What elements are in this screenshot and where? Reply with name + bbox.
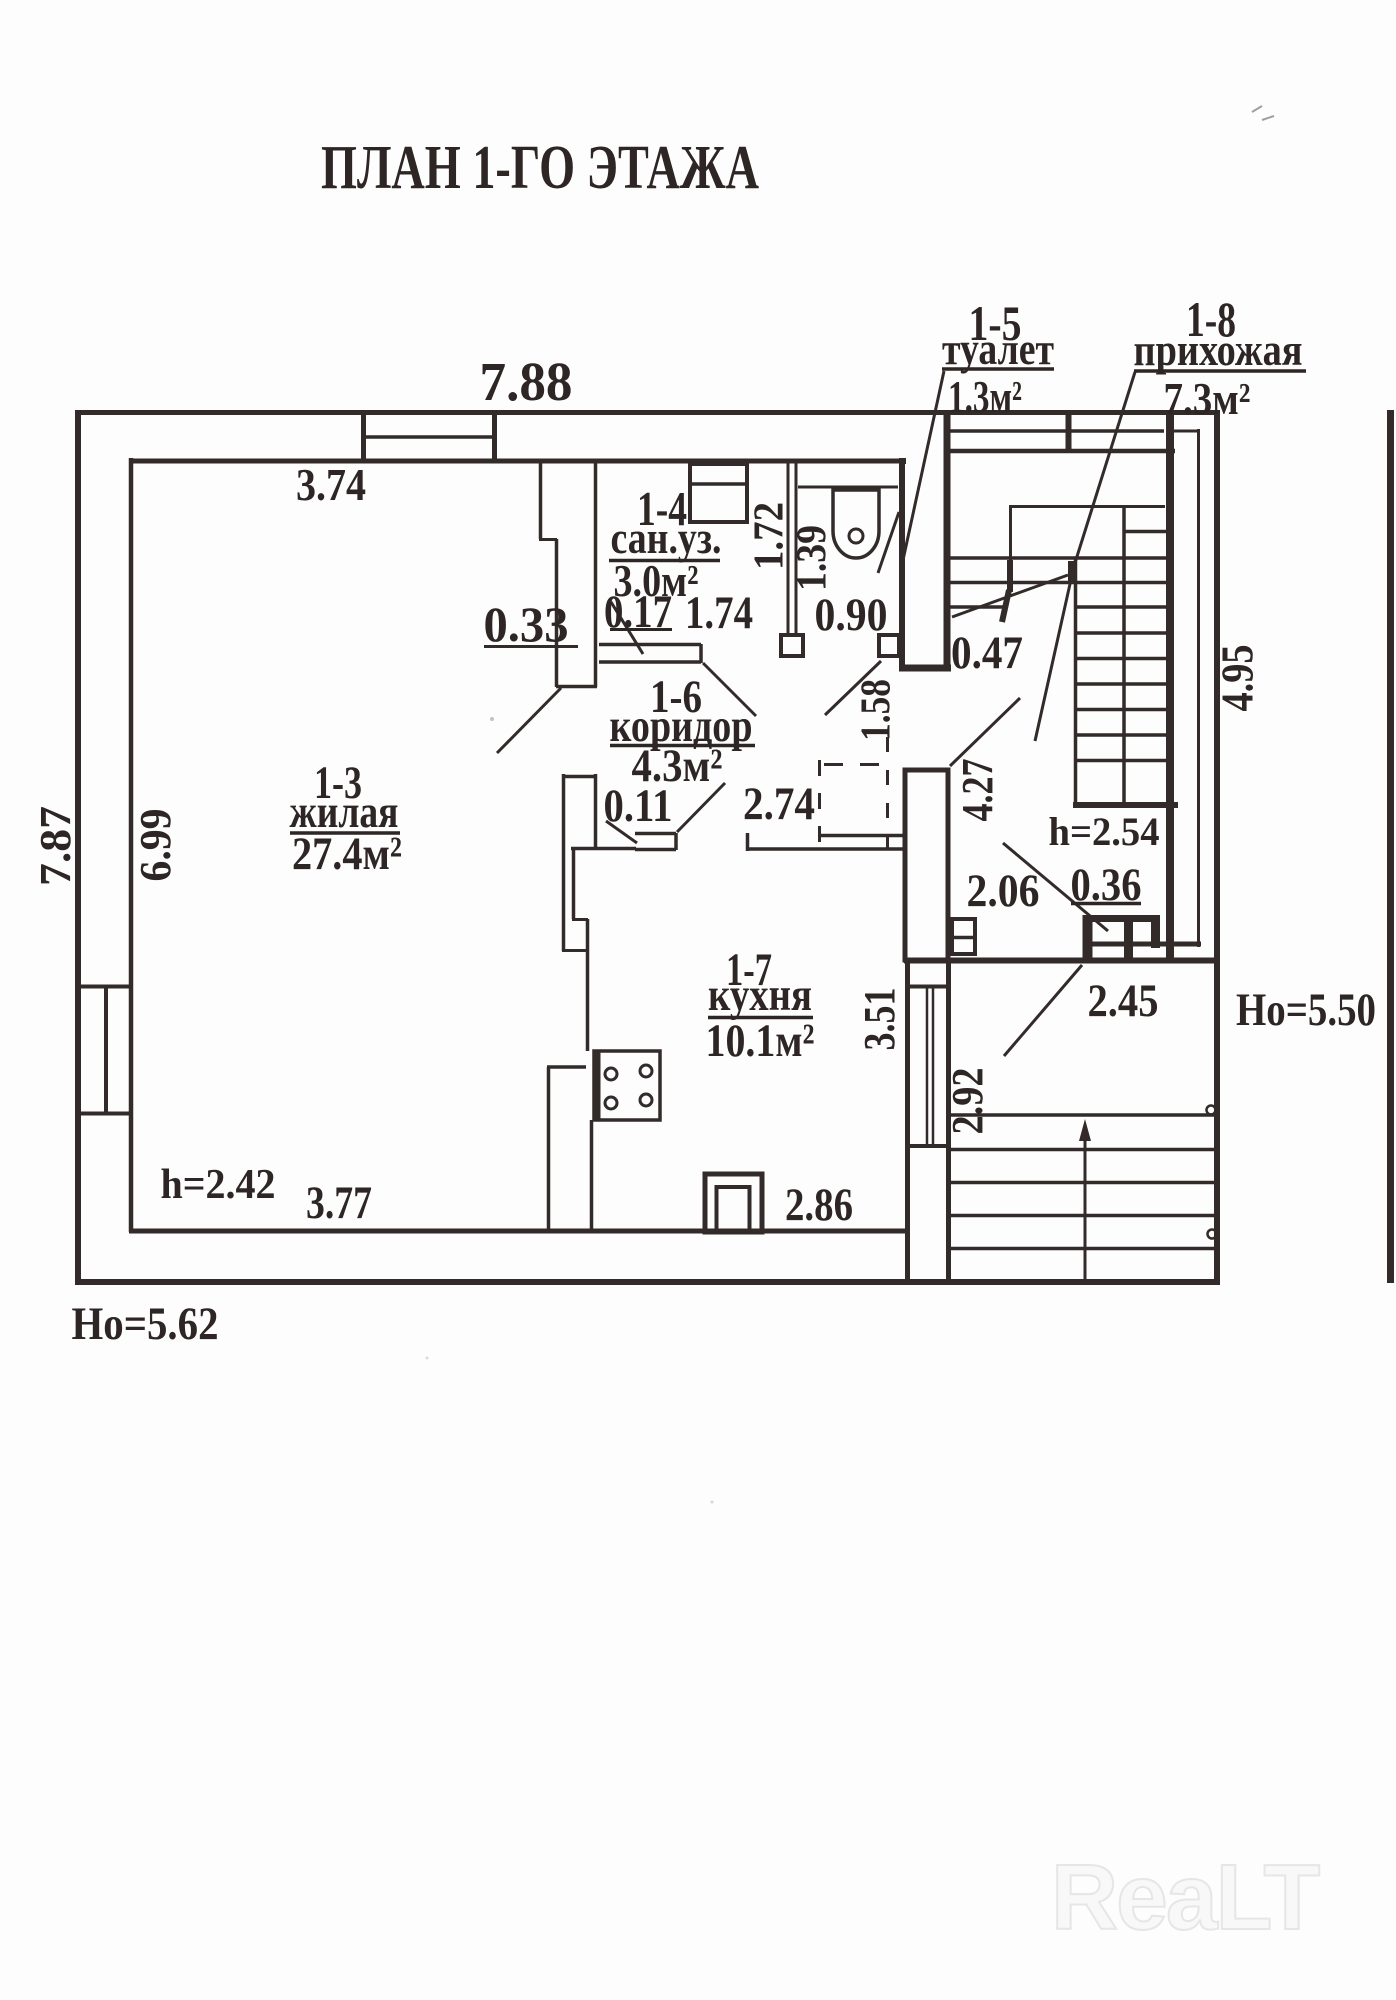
svg-text:1.58: 1.58	[853, 679, 899, 741]
wall: top inner	[129, 459, 904, 464]
stove burner 4	[640, 1094, 652, 1106]
staircase: right col tread a	[1125, 530, 1167, 534]
underline	[610, 628, 672, 631]
svg-text:7.3м²: 7.3м²	[1164, 373, 1251, 424]
porch: circle marker top	[1207, 1106, 1216, 1115]
porch: tread 1	[951, 1113, 1216, 1117]
svg-text:прихожая: прихожая	[1134, 324, 1303, 375]
door swing: toilet 1-5	[825, 661, 881, 715]
svg-text:Но=5.62: Но=5.62	[72, 1298, 219, 1350]
svg-text:3.74: 3.74	[296, 459, 366, 510]
svg-text:кухня: кухня	[708, 969, 812, 1021]
kitchen east window: top sill	[905, 985, 951, 989]
svg-text:7.87: 7.87	[31, 806, 80, 886]
svg-text:27.4м²: 27.4м²	[292, 828, 402, 880]
wall: left outer	[75, 410, 81, 1283]
stove burner 3	[605, 1097, 617, 1109]
svg-text:Но=5.50: Но=5.50	[1236, 984, 1376, 1036]
svg-text:7.88: 7.88	[480, 351, 573, 412]
window: left wall, glazing line	[104, 987, 108, 1113]
staircase: top band divider	[1066, 415, 1072, 453]
partition right line	[594, 461, 598, 687]
stove	[594, 1051, 660, 1120]
wall: bottom inner	[129, 1229, 907, 1234]
svg-text:0.11: 0.11	[604, 780, 673, 832]
staircase: bottom cap	[1073, 802, 1178, 808]
pier kitchen/hall	[905, 770, 948, 960]
underline	[1134, 369, 1306, 373]
svg-text:2.74: 2.74	[743, 778, 815, 830]
partition 1-4/1-5: left line	[787, 463, 790, 636]
svg-text:10.1м²: 10.1м²	[706, 1015, 815, 1067]
porch: tread 3	[951, 1181, 1216, 1185]
staircase: lower flight left edge	[1074, 558, 1078, 805]
kitchen west wall lower	[590, 1120, 594, 1230]
partition step	[539, 538, 557, 541]
door post: 1-5 door left	[781, 635, 803, 656]
window: top wall, right jamb	[492, 410, 497, 463]
svg-text:2.45: 2.45	[1088, 975, 1159, 1027]
partition 1-4/1-5: right line	[795, 463, 798, 636]
door 1-4: leaf rectangle	[599, 644, 701, 663]
staircase: door leaf stroke	[1002, 590, 1009, 622]
wall: right outer	[1214, 410, 1220, 1283]
staircase: void left edge lower	[1007, 560, 1013, 592]
underline	[290, 831, 400, 835]
svg-text:0.47: 0.47	[951, 627, 1023, 679]
porch: arrow shaft	[1084, 1137, 1087, 1281]
staircase: entry door swing	[952, 575, 1068, 617]
porch: tread 4	[951, 1214, 1216, 1218]
window: left wall, bottom sill	[76, 1112, 133, 1116]
staircase: long tread 1	[950, 556, 1167, 560]
leader 1.3m2	[903, 371, 944, 560]
kitchen NW stub: left line	[562, 774, 566, 951]
partition bottom cap	[556, 685, 597, 689]
kitchen east wall below pier: left line	[905, 960, 910, 1282]
wall 1-5/staircase: bottom cap	[899, 665, 951, 672]
svg-text:туалет: туалет	[942, 323, 1054, 374]
staircase: top band bottom line	[950, 449, 1175, 454]
staircase: lower flight treads	[1075, 607, 1167, 761]
wall: top-right inner connect	[1168, 430, 1200, 433]
porch: circle marker bottom	[1208, 1230, 1217, 1239]
window: left wall, top sill	[76, 985, 133, 989]
hall opening diagonal	[950, 698, 1020, 766]
svg-text:ПЛАН 1-ГО ЭТАЖА: ПЛАН 1-ГО ЭТАЖА	[321, 134, 759, 202]
kitchen north wall: left segment	[571, 847, 636, 851]
kitchen west wall step	[572, 918, 588, 921]
svg-text:1.72: 1.72	[746, 502, 792, 570]
underline	[610, 744, 755, 748]
south line: pier bottom + landing bottom + porch top	[904, 958, 1216, 964]
stove burner 2	[640, 1065, 652, 1077]
underline	[708, 1016, 813, 1020]
svg-text:2.92: 2.92	[943, 1068, 992, 1135]
svg-text:4.95: 4.95	[1212, 645, 1263, 712]
door swing: room 1-3 to corridor	[497, 688, 561, 753]
svg-text:4.27: 4.27	[953, 759, 1002, 822]
kitchen west wall mid	[586, 919, 590, 1051]
landing: middle line	[1084, 942, 1201, 947]
landing: top bar	[1083, 915, 1153, 922]
svg-text:6.99: 6.99	[131, 809, 180, 882]
dimension line 0.33	[484, 645, 578, 648]
landing: mid bar	[1124, 915, 1133, 961]
landing: left bar	[1083, 915, 1093, 961]
partition lower left line	[555, 539, 559, 687]
kitchen NW stub: top cap	[562, 775, 597, 779]
svg-text:3.51: 3.51	[855, 988, 904, 1051]
svg-text:3.77: 3.77	[306, 1177, 372, 1229]
svg-text:ReaLT: ReaLT	[1051, 1845, 1320, 1949]
porch: tread 5	[951, 1247, 1216, 1251]
scan speck 3	[426, 1357, 429, 1360]
leader 0.36	[1003, 843, 1108, 931]
leader 2.45	[1004, 965, 1082, 1056]
svg-text:2.06: 2.06	[967, 865, 1040, 917]
svg-text:1.74: 1.74	[685, 587, 753, 639]
stove burner 1	[605, 1068, 617, 1080]
kitchen west niche: vertical	[547, 1067, 551, 1230]
scan speck 1	[490, 717, 494, 721]
dashed opening top	[824, 763, 887, 766]
porch: arrow head	[1079, 1119, 1091, 1141]
staircase: junction square	[1068, 561, 1077, 583]
kitchen NW stub: right line	[594, 774, 598, 847]
staircase: top band mid tread	[950, 429, 1164, 433]
toilet drain circle	[849, 529, 863, 543]
underline	[609, 559, 720, 563]
door post: 1-5 door right	[879, 635, 899, 656]
door swing: 1-7	[677, 783, 725, 832]
hall small box 0.36	[952, 919, 975, 954]
wall 1-5/staircase: left line	[899, 461, 906, 670]
kitchen north wall: bottom line	[746, 847, 903, 851]
leader: prihozhaya 1-8	[1035, 372, 1135, 741]
pencil mark top right	[1252, 106, 1274, 120]
svg-text:0.90: 0.90	[815, 589, 888, 641]
wall 1-5/staircase: right line	[944, 415, 951, 670]
stairwell void	[1011, 507, 1124, 561]
window: top wall, middle line	[364, 435, 494, 439]
wall: bottom outer	[75, 1279, 1220, 1285]
svg-text:0.33: 0.33	[484, 596, 569, 652]
landing: right bar	[1151, 915, 1160, 948]
sink cabinet in 1-4	[690, 464, 747, 522]
staircase: short left tread	[950, 605, 1007, 609]
porch: tread 2	[951, 1148, 1216, 1152]
wall: top outer	[75, 410, 1220, 415]
staircase: stringer	[1122, 506, 1126, 805]
room 1-3 / 1-4 partition: upper stub left line	[539, 461, 543, 539]
toilet cistern line	[798, 486, 898, 489]
exterior kitchen door: outer rect	[705, 1174, 762, 1232]
kitchen east window: bottom sill	[905, 1144, 951, 1148]
wall: neighbour house line far right	[1387, 410, 1394, 1283]
exterior kitchen door: inner rect	[717, 1187, 750, 1232]
wall: left inner	[129, 458, 134, 1232]
kitchen north wall: top line	[819, 834, 903, 838]
leader 0.11	[606, 821, 637, 843]
staircase: long tread 2	[950, 581, 1167, 585]
window: top wall, left jamb	[361, 410, 366, 463]
toilet bowl	[833, 490, 879, 558]
wall: right inner thin	[1197, 429, 1200, 947]
underline	[942, 367, 1054, 371]
leader 0.17	[611, 602, 643, 654]
dashed opening line B	[886, 737, 889, 848]
staircase: right wall	[1166, 415, 1174, 959]
svg-text:h=2.54: h=2.54	[1049, 809, 1160, 854]
sink cabinet divider	[690, 482, 747, 486]
svg-text:2.86: 2.86	[785, 1179, 853, 1231]
door swing: 1-4	[703, 663, 756, 716]
svg-text:h=2.42: h=2.42	[161, 1162, 276, 1208]
kitchen west wall upper	[572, 847, 576, 919]
svg-text:1.39: 1.39	[789, 525, 835, 591]
hall small box divider	[952, 936, 975, 940]
scan speck 2	[711, 1501, 714, 1504]
svg-text:1.3м²: 1.3м²	[948, 371, 1022, 422]
kitchen north wall: left cap	[746, 833, 750, 851]
door leaf: toilet 1-5	[878, 512, 899, 573]
underline	[1071, 902, 1141, 906]
kitchen west niche: horizontal	[547, 1065, 586, 1069]
dashed opening line A	[818, 760, 821, 848]
door 1-7: leaf rectangle	[635, 833, 676, 850]
stove left thick edge	[594, 1051, 601, 1120]
kitchen east window: glazing lines	[927, 988, 933, 1145]
kitchen east wall below pier: right line	[946, 960, 951, 1282]
kitchen west wall tick	[562, 949, 588, 952]
